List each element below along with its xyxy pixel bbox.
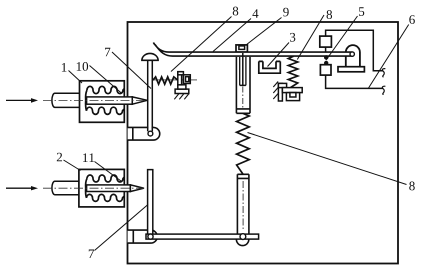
contact box upper — [320, 36, 332, 47]
needle upper — [87, 97, 148, 104]
clamp 9 — [236, 45, 247, 52]
piston foot arc — [236, 239, 248, 245]
label 7 top — [105, 48, 110, 57]
pivot bracket lower — [128, 230, 158, 243]
leader 7 top — [112, 52, 151, 89]
anchor ground hatch — [273, 82, 278, 100]
leader 5 — [326, 16, 357, 60]
leader 4 — [213, 19, 251, 52]
wire upper — [326, 30, 384, 71]
wire lower — [326, 75, 384, 88]
centerline upper axis — [43, 99, 147, 101]
leader 7 bottom — [95, 205, 149, 251]
leader 10 — [90, 66, 122, 94]
damper tube — [236, 57, 250, 113]
adjuster body — [175, 72, 190, 94]
damper rod — [240, 53, 246, 85]
label 3 — [290, 33, 295, 42]
input arrow upper — [6, 98, 38, 103]
pivot stand arch — [346, 45, 360, 67]
label 2 — [57, 153, 62, 162]
adjuster ground hatch — [174, 94, 189, 100]
anchor body — [278, 83, 302, 101]
label 10 — [77, 62, 88, 71]
leader 11 — [95, 162, 122, 182]
channel 3 — [259, 61, 281, 73]
damper bore lines — [240, 57, 246, 85]
label 4 — [252, 9, 258, 18]
leader 8 top-left — [171, 17, 232, 72]
damper centerline — [242, 87, 244, 109]
piston cylinder — [237, 174, 249, 234]
contact dot upper — [324, 55, 328, 59]
needle lower — [87, 185, 144, 192]
label 8 top-left — [233, 7, 239, 16]
rod lower — [52, 181, 79, 195]
leader 9 — [246, 18, 282, 46]
label 7 bottom — [89, 249, 94, 258]
spring 8 flapper — [153, 77, 178, 84]
label 11 — [83, 153, 94, 162]
leader 8 mid — [297, 15, 324, 60]
contact dot lower — [324, 61, 328, 65]
leader 3 — [268, 43, 290, 67]
leader 8 right — [248, 133, 407, 185]
piston centerline — [242, 181, 244, 231]
wire lower break — [382, 86, 385, 94]
label 9 — [283, 8, 289, 17]
pivot bracket upper — [128, 127, 160, 140]
lever 7 upper dome — [142, 53, 158, 60]
spring 8 center — [237, 113, 250, 174]
label 5 — [359, 7, 364, 16]
label 1 — [62, 63, 67, 72]
bellows 11 — [86, 175, 125, 201]
wire upper break — [382, 69, 385, 77]
centerline lower axis — [43, 187, 144, 189]
lever 7 upper stem — [148, 60, 153, 131]
label 8 mid — [327, 10, 333, 19]
leader 6 — [368, 25, 408, 89]
lever 7 lower stem — [148, 170, 153, 237]
housing 2 — [79, 169, 124, 207]
spring 8 vertical — [288, 56, 297, 87]
housing 1 — [80, 81, 125, 123]
leader 1 — [69, 71, 83, 84]
link bar — [146, 234, 259, 239]
contact box lower — [320, 65, 331, 75]
beam pivot pin — [350, 52, 354, 56]
leader 2 — [64, 160, 81, 171]
pivot pin upper — [148, 131, 153, 136]
beam 4 — [153, 43, 354, 57]
nozzle axis line — [154, 79, 198, 81]
input arrow lower — [6, 186, 38, 190]
label 6 — [409, 15, 415, 24]
contact stub — [325, 47, 327, 52]
bellows 10 — [86, 86, 125, 114]
link pin piston — [240, 234, 246, 240]
rod upper — [52, 93, 79, 107]
label 8 right — [409, 182, 415, 191]
pivot stand base — [338, 67, 364, 72]
pivot pin lower — [148, 234, 153, 239]
enclosure frame — [128, 22, 399, 264]
